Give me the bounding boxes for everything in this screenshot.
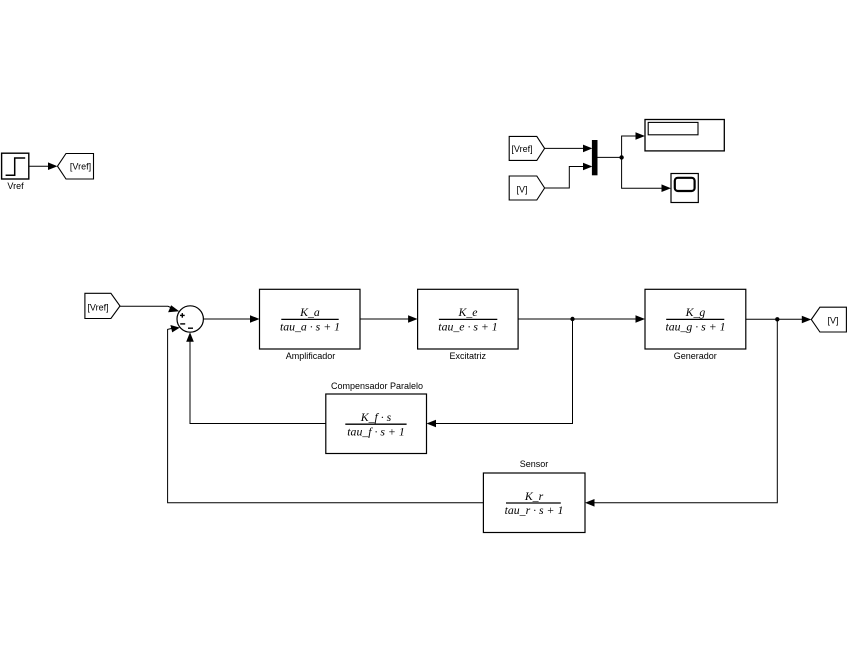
transfer fcn Generador [645, 289, 746, 361]
wire Amplificador to Excitatriz [360, 315, 418, 323]
svg-text:tau_g · s + 1: tau_g · s + 1 [665, 320, 725, 334]
wire step to goto Vref [29, 162, 58, 170]
wire from [Vref] to mux input 1 [545, 145, 593, 153]
svg-text:tau_r · s + 1: tau_r · s + 1 [505, 503, 564, 517]
svg-text:Excitatriz: Excitatriz [450, 351, 487, 361]
svg-text:[Vref]: [Vref] [511, 144, 532, 154]
svg-text:K_e: K_e [457, 305, 477, 319]
svg-text:K_r: K_r [524, 489, 544, 503]
transfer fcn Compensador Paralelo [326, 381, 427, 454]
wire junction to display block [622, 132, 645, 157]
wire sum to Amplificador [203, 315, 259, 323]
wire Excitatriz to Generador [518, 315, 645, 323]
svg-text:tau_f · s + 1: tau_f · s + 1 [347, 424, 404, 438]
svg-text:Vref: Vref [7, 181, 24, 191]
junction after Generador [775, 317, 779, 321]
wire Sensor output to sum left-bottom input [168, 325, 484, 503]
svg-text:[V]: [V] [827, 315, 838, 325]
goto tag [Vref] top-left [58, 154, 94, 180]
scope block [671, 174, 698, 203]
display block (to workspace) [645, 120, 724, 151]
svg-text:Compensador Paralelo: Compensador Paralelo [331, 381, 423, 391]
transfer fcn Amplificador [260, 289, 361, 361]
svg-text:Generador: Generador [674, 351, 717, 361]
from tag [Vref] main row [85, 293, 120, 318]
wire mux output [597, 156, 622, 158]
junction after mux [619, 155, 623, 159]
transfer fcn Excitatriz [418, 289, 518, 361]
svg-text:K_g: K_g [685, 305, 706, 319]
from tag [V] top-right [509, 176, 544, 200]
wire from [Vref] to sum + input [120, 305, 179, 312]
wire Generador to goto [V] [746, 316, 812, 324]
svg-text:tau_e · s + 1: tau_e · s + 1 [438, 320, 497, 334]
svg-text:Sensor: Sensor [520, 459, 549, 469]
svg-text:K_f · s: K_f · s [360, 410, 392, 424]
svg-text:[Vref]: [Vref] [70, 161, 91, 171]
goto tag [V] right [811, 307, 846, 332]
step source Vref [2, 153, 29, 191]
from tag [Vref] top-right [509, 136, 544, 160]
wire junction to scope [622, 157, 671, 192]
junction after Excitatriz [570, 317, 574, 321]
wire junction to Compensador input [427, 319, 573, 427]
wire Compensador output to sum bottom input [186, 332, 326, 423]
svg-text:K_a: K_a [299, 305, 320, 319]
mux [592, 141, 597, 175]
svg-text:Amplificador: Amplificador [286, 351, 336, 361]
wire from [V] to mux input 2 [545, 163, 593, 188]
svg-text:[Vref]: [Vref] [87, 302, 108, 312]
wire junction to Sensor input [585, 319, 777, 506]
sum junction [177, 306, 203, 332]
svg-text:[V]: [V] [516, 184, 527, 194]
transfer fcn Sensor [483, 459, 585, 533]
svg-text:tau_a · s + 1: tau_a · s + 1 [280, 320, 340, 334]
